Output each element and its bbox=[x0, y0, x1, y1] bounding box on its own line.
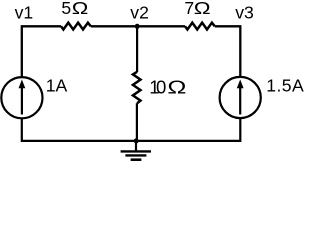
svg-text:1A: 1A bbox=[46, 76, 68, 96]
resistor 7Ω (between v2 and v3) bbox=[185, 23, 215, 30]
current source I1 circle bbox=[1, 77, 42, 118]
svg-text:Ω: Ω bbox=[194, 0, 211, 19]
wire: 7Ω right lead, v3 corner, down to current source I2 bbox=[215, 26, 241, 77]
wire: bottom rail (ground net) bbox=[22, 140, 241, 142]
wire: node v2 to 7Ω left lead bbox=[137, 25, 185, 27]
svg-text:v1: v1 bbox=[15, 3, 34, 23]
current source I2 circle bbox=[220, 77, 261, 118]
svg-text:5: 5 bbox=[61, 0, 71, 18]
svg-text:v2: v2 bbox=[130, 2, 149, 22]
svg-text:Ω: Ω bbox=[72, 0, 89, 19]
node v2 junction dot bbox=[135, 24, 140, 29]
wire: node v2 down to 10Ω top lead bbox=[136, 26, 138, 72]
ground symbol stub bbox=[135, 141, 137, 151]
wire: v1 corner, top-left rail down to current source I1 bbox=[22, 26, 61, 77]
ground symbol bar 2 bbox=[125, 154, 146, 156]
svg-text:0: 0 bbox=[156, 76, 166, 97]
node: ground junction dot on bottom rail bbox=[134, 138, 139, 143]
svg-text:v3: v3 bbox=[235, 2, 254, 22]
ground symbol bar 1 bbox=[121, 150, 151, 152]
ground symbol bar 3 bbox=[131, 158, 142, 161]
wire: current source I1 bottom to bottom rail bbox=[21, 118, 23, 143]
wire: 5Ω right lead to node v2 bbox=[91, 25, 137, 27]
resistor 10Ω (v2 to ground) bbox=[133, 72, 141, 103]
current source I2 arrow (points up) bbox=[239, 87, 241, 115]
wire: current source I2 bottom to bottom rail bbox=[239, 117, 241, 142]
svg-text:Ω: Ω bbox=[167, 77, 186, 98]
current source I1 arrow (points up) bbox=[21, 87, 23, 115]
resistor 5Ω (between v1 and v2) bbox=[61, 23, 91, 30]
svg-text:1.5A: 1.5A bbox=[266, 76, 304, 96]
wire: 10Ω bottom lead to bottom rail bbox=[136, 103, 138, 141]
